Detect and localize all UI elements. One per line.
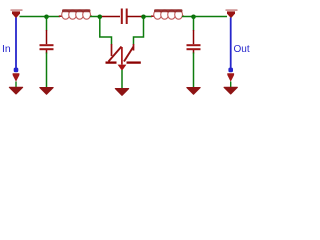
transformer T1 tap arrow xyxy=(118,65,127,71)
wire node D to Out xyxy=(194,16,228,18)
wire node A to L1 xyxy=(47,16,61,18)
wire C1 to ground xyxy=(46,53,48,90)
wire node B down-bend xyxy=(100,17,112,45)
pin capacitor C2 right xyxy=(127,16,142,18)
transformer T1 body xyxy=(106,47,141,65)
pin arrow In bottom xyxy=(13,73,20,82)
transformer T1 pins xyxy=(112,44,134,56)
port Out arrow xyxy=(226,9,238,18)
capacitor C1 plates xyxy=(40,44,54,53)
wire node C to L2 xyxy=(145,16,152,18)
wire Out ground stub xyxy=(230,82,232,89)
capacitor C2 plates xyxy=(121,9,128,25)
bus line In xyxy=(15,18,17,69)
capacitor C3 plates xyxy=(187,44,201,53)
svg-text:Out: Out xyxy=(234,44,250,55)
wire In ground stub xyxy=(15,82,17,89)
wire L1 to node B xyxy=(90,16,100,18)
pin arrow Out bottom xyxy=(227,73,234,82)
ground C1 xyxy=(40,88,53,95)
wire node C down-bend xyxy=(134,17,144,45)
inductor L2 xyxy=(151,9,184,19)
node In bottom dot xyxy=(14,68,19,73)
ground C3 xyxy=(187,88,200,95)
wire C3 to ground xyxy=(193,53,195,90)
wire tap to ground xyxy=(121,70,123,90)
svg-text:In: In xyxy=(2,43,11,55)
node A junction xyxy=(44,14,49,19)
node D junction xyxy=(191,14,196,19)
node B junction xyxy=(98,14,103,19)
wire L2 to node D xyxy=(182,16,194,18)
ground Out xyxy=(224,87,237,94)
wire node A down xyxy=(46,17,48,31)
ground In xyxy=(9,87,22,94)
node Out bottom dot xyxy=(228,68,233,73)
node C junction xyxy=(141,14,146,19)
port In arrow xyxy=(11,9,23,18)
pin capacitor C3 top xyxy=(193,30,195,44)
wire node D down xyxy=(193,17,195,31)
bus line Out xyxy=(230,18,232,69)
inductor L1 xyxy=(59,9,92,19)
ground center xyxy=(115,89,128,96)
pin capacitor C2 left xyxy=(102,16,120,18)
wire In to node A xyxy=(20,16,47,18)
pin capacitor C1 top xyxy=(46,30,48,44)
